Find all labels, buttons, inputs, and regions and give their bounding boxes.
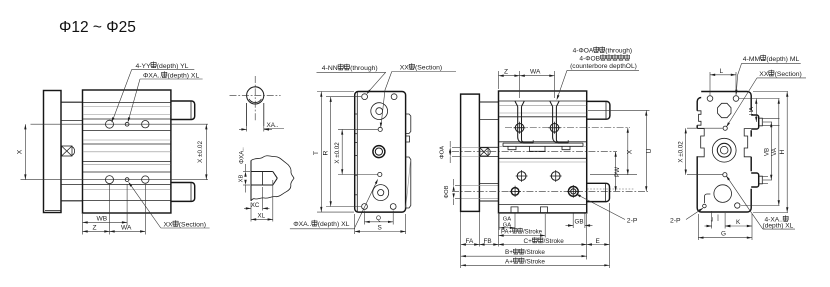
svg-text:XX: XX <box>164 222 174 229</box>
view1 bottom guide rod <box>171 183 195 202</box>
svg-text:VB: VB <box>763 148 770 156</box>
view5 upper port boss <box>751 115 779 129</box>
view4 port hole left <box>510 186 521 197</box>
dimension L <box>710 68 736 76</box>
svg-text:XB: XB <box>239 175 245 183</box>
label 2-P view4 <box>576 194 638 225</box>
svg-text:WA: WA <box>121 224 132 231</box>
svg-text:/Stroke: /Stroke <box>523 229 543 235</box>
view4 counterbore hole right <box>549 101 561 134</box>
dimension FA <box>461 238 480 246</box>
view5 right extension lines <box>739 92 788 213</box>
label 2-P view5 <box>670 208 704 225</box>
svg-text:X ±0.02: X ±0.02 <box>678 141 685 163</box>
view4 air passage elbow right <box>553 107 569 144</box>
dimension S <box>355 225 406 233</box>
view1 upper hole centerline <box>31 123 209 125</box>
svg-text:(through): (through) <box>605 48 632 55</box>
view3 left extension lines <box>317 92 378 213</box>
view1 piston rod section box <box>62 146 75 156</box>
dimension PW <box>614 152 621 192</box>
svg-text:XC: XC <box>251 202 260 209</box>
view3 body outline <box>355 92 406 213</box>
svg-text:/Stroke: /Stroke <box>525 249 546 256</box>
dimension A stroke <box>461 257 610 266</box>
svg-text:Q: Q <box>376 215 381 222</box>
dimension FB <box>479 238 498 246</box>
view4 port hole right 2-P <box>567 185 580 198</box>
view1 body extrusion lines <box>83 103 171 201</box>
view4 body extrusion lines <box>499 101 586 205</box>
svg-text:VA: VA <box>771 147 778 156</box>
svg-text:FB: FB <box>484 238 492 245</box>
dimension WA view4 <box>520 69 555 77</box>
view4 body <box>499 91 587 213</box>
view4 piston rod section box <box>480 148 490 156</box>
svg-text:S: S <box>378 225 382 232</box>
view4 hidden line right <box>587 188 635 190</box>
svg-text:(depth) YL: (depth) YL <box>157 63 189 70</box>
svg-text:PW: PW <box>614 167 621 177</box>
dimension G <box>698 231 752 239</box>
svg-text:2-P: 2-P <box>670 218 681 225</box>
label 4-phi OA OB counterbore <box>557 47 639 101</box>
dimension WB <box>83 215 128 223</box>
view5 left edge upper notch <box>697 111 701 125</box>
label 4-NN through <box>317 64 386 94</box>
svg-text:K: K <box>736 219 741 226</box>
svg-text:Z: Z <box>504 69 508 76</box>
svg-text:..: .. <box>308 221 312 228</box>
svg-text:(through): (through) <box>350 65 378 72</box>
svg-text:4-NN: 4-NN <box>322 65 338 72</box>
svg-text:ΦXA: ΦXA <box>293 221 308 228</box>
svg-text:..: .. <box>158 73 162 80</box>
svg-text:XX: XX <box>400 65 410 72</box>
label 4-MM depth ML <box>735 55 801 95</box>
view4 flange plate <box>461 94 480 211</box>
svg-text:C+: C+ <box>524 238 533 245</box>
svg-text:(Section): (Section) <box>415 65 442 72</box>
svg-text:X ±0.02: X ±0.02 <box>334 142 341 164</box>
GB label box <box>566 214 593 229</box>
dimension T <box>313 92 322 213</box>
view1 top guide rod <box>171 101 195 120</box>
view2 tangent lines <box>247 103 264 126</box>
view3 bottom bushing <box>373 185 389 201</box>
label phi OB view4 <box>444 179 462 205</box>
view4 pin holes crossed <box>516 170 562 182</box>
dimension E <box>587 238 610 246</box>
dimension H <box>779 92 789 213</box>
svg-text:WB: WB <box>97 215 108 222</box>
view3 bottom extension lines <box>355 211 406 235</box>
view1 lower hole centerline <box>21 179 209 181</box>
view5 bottom right hole <box>735 203 740 208</box>
svg-text:J: J <box>711 218 714 224</box>
svg-text:GB: GB <box>575 218 584 225</box>
svg-text:4-MM: 4-MM <box>743 56 761 63</box>
view5 piston bore circles <box>712 138 736 162</box>
dimension U <box>645 110 653 191</box>
view5 lower rod bore <box>714 185 732 203</box>
svg-text:FA: FA <box>466 238 475 245</box>
svg-text:H: H <box>779 149 786 154</box>
GA label box <box>499 214 515 231</box>
label phi XA depth XL view1 <box>128 71 203 122</box>
view3 top bushing <box>371 103 388 120</box>
view4 bottom extension lines <box>461 203 610 268</box>
svg-text:HA: HA <box>749 107 755 115</box>
view5 bottom left port <box>703 194 711 208</box>
view2 rod end circle <box>247 87 264 104</box>
view1 neck with rods <box>61 102 83 201</box>
svg-text:(Section): (Section) <box>775 71 802 78</box>
dimension XL <box>251 180 273 222</box>
svg-text:(depth) XL: (depth) XL <box>318 221 350 228</box>
view2 pin hole left edge <box>250 160 252 201</box>
dimension WA <box>110 224 146 232</box>
svg-text:ΦXA..: ΦXA.. <box>239 147 246 164</box>
view5 top extension lines <box>710 72 736 95</box>
dimension C stroke <box>499 237 587 246</box>
svg-text:A+: A+ <box>505 258 513 265</box>
svg-text:G: G <box>721 231 726 238</box>
view1 body <box>83 90 171 213</box>
view4 bottom guide rod <box>587 183 610 201</box>
view5 right edge T-slot <box>744 129 751 157</box>
view4 channel box lines <box>503 143 583 151</box>
dimension Z view4 <box>499 69 520 77</box>
view5 small port dim <box>705 215 731 228</box>
label phi OA view4 <box>440 141 462 163</box>
svg-text:T: T <box>313 151 320 155</box>
svg-text:XL: XL <box>258 213 266 220</box>
view4 right extension lines <box>588 110 650 174</box>
svg-text:ΦOB: ΦOB <box>444 185 450 198</box>
label XX section view1 <box>128 182 209 229</box>
dimension Z <box>83 224 110 232</box>
view4 air passage elbow left <box>518 107 534 144</box>
dimension Q <box>365 215 394 223</box>
view4 ports centerline lower <box>452 190 648 192</box>
svg-text:4-YY: 4-YY <box>136 63 152 70</box>
view5 hex bore <box>718 103 731 117</box>
svg-text:R: R <box>323 150 330 155</box>
dimension X left <box>17 124 27 179</box>
svg-text:/Stroke: /Stroke <box>544 238 565 245</box>
svg-text:ΦXA: ΦXA <box>143 73 158 80</box>
view1 flange plate <box>44 91 62 213</box>
view5 bottom extension lines <box>698 211 752 240</box>
label XX section view5 <box>726 70 806 127</box>
view3 corner holes <box>362 94 397 210</box>
dimension B stroke <box>461 248 587 257</box>
dimension XB <box>239 164 251 193</box>
dimension HA <box>749 99 757 123</box>
label 4-YY depth YL <box>112 62 195 123</box>
view3 pin holes <box>378 127 383 176</box>
svg-text:L: L <box>720 68 724 75</box>
view2 centerlines <box>230 76 281 122</box>
svg-text:4-ΦOB: 4-ΦOB <box>579 55 600 62</box>
view3 left rail edge <box>355 92 357 212</box>
svg-text:(Section): (Section) <box>179 222 206 229</box>
svg-text:4-ΦOA: 4-ΦOA <box>573 48 594 55</box>
view5 top corner holes <box>707 96 739 102</box>
dimension R <box>323 97 332 207</box>
view5 lower port boss <box>751 173 768 187</box>
dimension XC <box>244 187 270 211</box>
svg-text:X ±0.02: X ±0.02 <box>197 141 204 163</box>
svg-text:U: U <box>646 148 653 153</box>
label XX section view3 <box>380 63 456 128</box>
svg-text:(counterbore depthOL): (counterbore depthOL) <box>570 63 637 70</box>
view2 counterbore hole <box>251 172 277 186</box>
svg-text:E: E <box>596 238 600 245</box>
svg-text:(depth) XL: (depth) XL <box>763 223 794 230</box>
svg-text:(depth) XL: (depth) XL <box>168 73 200 80</box>
svg-text:X: X <box>17 149 24 154</box>
view5 left edge T-slot <box>697 129 704 157</box>
view1 holes upper row <box>106 120 150 128</box>
dimension XA view2 <box>239 122 284 132</box>
svg-text:ΦOA: ΦOA <box>440 146 446 159</box>
label 4-XA depth XL view5 <box>726 175 795 229</box>
dimension X tolerance view3 <box>334 129 343 174</box>
view5 body outline <box>697 92 751 213</box>
svg-text:B+: B+ <box>505 249 513 256</box>
view4 bottom notches <box>511 207 548 213</box>
view4 top guide rod <box>587 101 610 119</box>
view4 top extension lines <box>499 71 555 98</box>
dimension PA stroke <box>499 228 546 237</box>
svg-text:/Stroke: /Stroke <box>525 258 546 265</box>
view1 holes lower row <box>106 176 150 184</box>
svg-text:PA+: PA+ <box>501 229 513 235</box>
view5 X dim extension lines <box>687 128 723 175</box>
view4 ports centerline upper <box>505 127 630 129</box>
svg-text:XX: XX <box>759 71 769 78</box>
dimension X tolerance view5 <box>678 128 687 175</box>
view1 bottom extension lines <box>83 184 146 235</box>
svg-text:(depth) ML: (depth) ML <box>766 56 799 63</box>
view3 center bore <box>373 146 385 158</box>
svg-text:Φ12 ~ Φ25: Φ12 ~ Φ25 <box>59 19 136 36</box>
view4 neck with rods <box>479 102 498 201</box>
view4 counterbore hole left <box>514 101 526 134</box>
view4 main centerline <box>452 151 617 153</box>
dimension X tolerance right <box>197 124 208 179</box>
svg-text:..: .. <box>275 122 279 129</box>
label phi XA depth XL detail <box>290 179 378 229</box>
dimension K <box>725 219 752 227</box>
dimension X view4 <box>626 128 633 175</box>
dimension VA <box>771 99 780 206</box>
svg-text:X: X <box>626 149 633 154</box>
svg-text:2-P: 2-P <box>627 217 638 224</box>
view5 pin holes <box>723 126 728 177</box>
svg-text:WA: WA <box>530 69 541 76</box>
svg-text:Z: Z <box>93 224 97 231</box>
view4 rod hole lines through neck <box>461 147 479 198</box>
dimension VB <box>763 122 772 180</box>
view3 right protrusions <box>406 114 411 208</box>
view2 breakout section blob <box>251 156 294 201</box>
